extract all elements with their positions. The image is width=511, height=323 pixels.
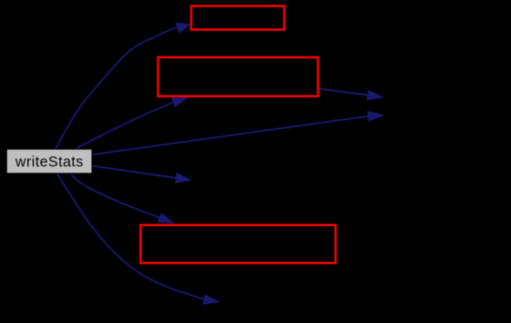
svg-text:writeStats: writeStats <box>14 154 83 170</box>
wire edge writeStats to box2 <box>76 103 173 149</box>
arrowhead to box2 <box>171 97 189 108</box>
arrowhead to middle node <box>175 173 193 184</box>
arrowhead to box3 <box>157 212 175 223</box>
wire edge box2 to right node <box>319 89 368 96</box>
wire edge writeStats to middle node <box>93 166 176 178</box>
node box2 (red) <box>158 57 318 96</box>
arrowhead to bottom node <box>203 294 221 305</box>
node writeStats <box>7 149 93 174</box>
node box1 (red) <box>191 6 284 30</box>
wire edge writeStats to box3 <box>71 174 159 217</box>
arrowhead to box1 <box>175 23 191 34</box>
node box3 (red) <box>141 225 336 263</box>
arrowhead box2 to right node <box>367 90 385 101</box>
arrowhead to right node 2 <box>367 111 384 122</box>
wire edge writeStats to box1 <box>56 27 177 148</box>
wire edge writeStats to right node 2 <box>93 116 368 154</box>
wire edge writeStats to bottom node <box>57 174 204 300</box>
